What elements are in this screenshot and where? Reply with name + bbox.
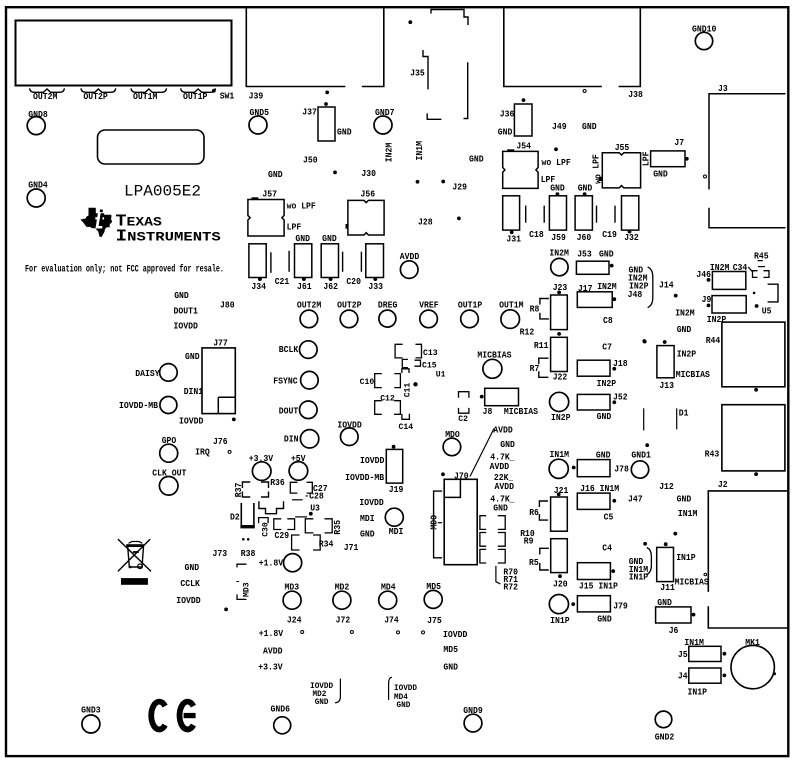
svg-text:J4: J4 [678,671,688,682]
svg-text:MDI: MDI [389,526,404,537]
dot J29 b [441,180,445,184]
jumper J62 [321,244,338,278]
testpoint GND10 [695,32,712,49]
svg-text:VREF: VREF [419,300,439,311]
svg-text:DOUT1: DOUT1 [174,306,199,317]
svg-text:J62: J62 [323,281,338,292]
svg-text:GND: GND [599,249,614,260]
dot J36 [522,98,526,102]
dot J9 [707,304,711,308]
chip J57 outline [248,200,284,237]
svg-text:AVDD: AVDD [490,461,510,472]
connector J2 outline [708,491,789,628]
svg-text:IN1M: IN1M [550,449,570,460]
capacitor C34 bracket L [753,271,758,278]
svg-text:IOVDD: IOVDD [443,629,468,640]
component pin bracket 1L [480,516,486,530]
brace MD2 stack [335,679,341,703]
svg-text:R6: R6 [529,507,539,518]
svg-text:J22: J22 [553,372,568,383]
jumper J6 [656,607,691,623]
svg-text:IN1M: IN1M [414,141,425,161]
svg-text:IN2P: IN2P [677,349,697,360]
resistor R34 bracket R [313,535,320,550]
wire J70 tick [438,522,442,524]
svg-text:GND: GND [677,324,692,335]
jumper J15 [577,563,610,580]
wire D1 mark a [676,408,678,429]
component pin bracket 2R [498,533,505,547]
jumper J59 [549,196,566,230]
dot SW1 [212,89,216,93]
svg-text:J37: J37 [302,106,317,117]
svg-text:J56: J56 [361,188,376,199]
testpoint IN2M [551,258,568,275]
resistor R43 [722,405,785,471]
svg-text:GND: GND [550,183,565,194]
dot J5 [723,652,727,656]
svg-text:OUT2M: OUT2M [33,91,58,102]
svg-text:wo: wo [592,174,603,184]
capacitor C2 bracket top [459,392,469,398]
svg-text:C13: C13 [423,348,438,358]
svg-text:IN1M: IN1M [678,508,698,519]
capacitor C20 mark b [360,252,362,272]
svg-text:IN2M: IN2M [597,281,617,292]
svg-text:FSYNC: FSYNC [273,375,298,386]
jumper J52 [577,394,610,410]
svg-text:MD5: MD5 [443,644,458,655]
dot IN1P [571,602,575,606]
capacitor C13 bracket L [395,344,403,358]
dot J16 [612,499,616,503]
jumper J36 [514,104,532,136]
dot J13 [663,340,667,344]
testpoint DOUT [300,401,318,419]
OUT1M pin brace [131,88,167,92]
svg-text:OUT1P: OUT1P [183,91,208,102]
capacitor small bracket a [402,359,408,367]
svg-text:R7: R7 [530,363,540,374]
dot J62 [329,277,333,281]
svg-text:IN2P: IN2P [707,314,727,325]
svg-text:J12: J12 [659,481,674,492]
svg-text:J31: J31 [506,234,521,245]
wire AVDD pointer [470,429,494,477]
svg-text:GND: GND [597,614,612,625]
svg-text:LPF: LPF [591,154,602,169]
svg-text:DREG: DREG [378,300,398,311]
testpoint MD4 [379,591,397,609]
jumper J16 [577,493,610,509]
open dot IRQ [228,450,231,453]
svg-text:J34: J34 [251,281,266,292]
svg-text:J76: J76 [213,436,228,447]
testpoint GND1 [631,461,648,478]
svg-text:C15: C15 [422,360,437,370]
svg-text:J49: J49 [552,121,567,132]
testpoint MD3 [283,591,301,609]
resistor R35 bracket L [305,519,313,533]
svg-text:J24: J24 [287,614,302,625]
dot D2 b [247,538,250,541]
rounded label box [98,130,205,164]
svg-text:IOVDD-MB: IOVDD-MB [119,400,158,411]
svg-text:AVDD: AVDD [263,645,283,656]
dot J33 [373,277,377,281]
connector J39 outline [246,9,383,87]
dot U1 pin1 [413,382,417,386]
testpoint IN2P [550,392,569,411]
OUT2P pin brace [81,88,116,92]
svg-text:OUT2P: OUT2P [337,300,362,311]
svg-text:R11: R11 [534,340,549,351]
capacitor C18 mark b [543,206,545,223]
svg-text:IN2P: IN2P [597,378,617,389]
svg-text:C10: C10 [360,377,375,387]
dot U3 [309,512,313,516]
dot D2 a [242,538,245,541]
capacitor C29 bracket R [287,519,294,530]
WEEE crossed-out bin icon [118,539,151,571]
testpoint IOVDD [341,428,359,446]
svg-text:C12: C12 [380,394,395,404]
svg-text:GND3: GND3 [81,705,101,716]
dot J11 [664,542,668,546]
testpoint GND9 [464,714,482,732]
capacitor C15 bracket [414,360,420,366]
svg-text:AVDD: AVDD [493,424,513,435]
testpoint GND4 [27,189,45,207]
svg-text:GND: GND [469,153,484,164]
jumper J31 [503,196,520,230]
open dot J72 [350,631,353,634]
testpoint MICBIAS [483,359,502,378]
testpoint GPO [160,444,178,462]
svg-text:GND: GND [360,529,375,540]
OUT2M pin brace [30,88,65,92]
svg-text:IOVDD: IOVDD [179,416,204,427]
testpoint CLK_OUT [159,477,178,496]
testpoint IOVDD-MB [160,397,177,414]
dot IN1M [572,466,576,470]
jumper J19 [386,449,402,483]
testpoint IN1P [549,595,568,614]
svg-text:J61: J61 [297,281,312,292]
svg-text:J33: J33 [368,281,383,292]
chip J55 outline [602,153,640,188]
testpoint OUT2P [340,310,358,328]
svg-text:C20: C20 [346,276,361,287]
capacitor C12 bracket L [375,401,382,415]
capacitor C11 bracket top [402,369,409,373]
svg-text:IN2P: IN2P [551,412,571,423]
svg-text:BCLK: BCLK [279,344,299,355]
component pin bracket 2L [480,533,486,547]
dot J12 [673,532,677,536]
jumper J5 [689,646,721,661]
dot J22 [557,332,561,336]
svg-text:LPF: LPF [287,221,302,232]
resistor R34 bracket L [292,535,300,550]
svg-text:MICBIAS: MICBIAS [675,577,709,588]
connector J35 left fragment [423,50,428,89]
svg-text:IOVDD: IOVDD [174,321,199,332]
dot U5 a [753,292,756,295]
dot J53 [610,264,614,268]
svg-text:J36: J36 [500,108,515,119]
svg-text:MDO: MDO [428,515,439,530]
svg-text:C14: C14 [399,422,414,432]
jumper J33 [366,244,384,278]
pin1 tab J56 [346,224,349,229]
capacitor C21 mark a [270,252,272,272]
resistor R6 outline [539,501,548,520]
capacitor C21 mark b [288,251,290,272]
svg-text:MICBIAS: MICBIAS [676,369,710,380]
svg-text:CCLK: CCLK [180,578,200,589]
svg-text:GND: GND [582,121,597,132]
OUT1P pin brace [181,88,216,92]
svg-text:J71: J71 [344,542,359,553]
svg-text:C19: C19 [602,229,617,240]
capacitor C34 bracket R [764,271,770,278]
svg-text:INSTRUMENTS: INSTRUMENTS [116,227,222,245]
svg-text:GND: GND [185,351,200,362]
svg-text:MDI: MDI [360,513,375,524]
svg-text:C8: C8 [603,315,613,326]
svg-text:D2: D2 [230,512,240,523]
svg-text:IN2M: IN2M [549,247,569,258]
dot J15 [611,569,615,573]
capacitor C18 mark a [525,206,527,223]
svg-text:J7: J7 [674,137,684,148]
dot GND1 [645,443,649,447]
jumper J53 [576,261,609,274]
svg-text:GND6: GND6 [271,703,291,714]
dot J6 [692,613,696,617]
dot J31 [510,230,514,234]
connector block SW1 outline [16,21,232,86]
svg-text:GND: GND [653,168,668,179]
svg-text:GND: GND [597,411,612,422]
chip J54 outline [503,151,538,188]
capacitor C29 bracket L [274,519,282,530]
dot J77 [232,418,236,422]
svg-text:DAISY: DAISY [135,368,160,379]
svg-text:GND: GND [493,503,508,514]
svg-text:+1.8V: +1.8V [259,628,284,639]
dot J52 [612,400,616,404]
svg-text:J11: J11 [660,582,675,593]
dot J20 [558,574,562,578]
dot mid right [643,340,647,344]
svg-text:GND: GND [268,169,283,180]
dot J32 [628,230,632,234]
svg-text:+3.3V: +3.3V [258,662,283,673]
open dot J75 [422,631,425,634]
jumper J4 [689,668,721,683]
connector J77 [202,348,235,414]
dot R43 [754,472,758,476]
component pin bracket 1R [498,516,505,530]
testpoint +5V [289,462,308,481]
svg-text:C4: C4 [602,543,612,554]
testpoint DIN [300,430,318,448]
svg-text:R38: R38 [241,548,256,559]
svg-text:wo LPF: wo LPF [542,157,572,168]
component pin bracket 3L [480,549,486,563]
bracket MD3 top [237,564,246,567]
svg-text:J20: J20 [553,579,568,590]
capacitor C30 bracket [259,518,269,524]
dot MK1 [773,672,776,675]
svg-text:J48: J48 [628,289,643,300]
svg-text:R9: R9 [524,536,534,547]
dot J70 [441,472,445,476]
testpoint DREG [379,310,396,327]
dot J50 [333,171,337,175]
pin1 tab J54 [507,149,514,152]
svg-text:IOVDD: IOVDD [359,497,384,508]
connector J38 outline [504,9,641,87]
resistor R36 outline [261,482,269,497]
diode D2 outline [241,503,254,525]
svg-text:J53: J53 [577,249,592,260]
wire U3 mark [295,516,307,518]
testpoint VREF [420,310,438,328]
svg-text:IOVDD: IOVDD [337,420,362,431]
svg-text:IN1P: IN1P [550,615,570,626]
open dot MICBIAS J11 [704,573,707,576]
svg-text:J57: J57 [262,188,277,199]
svg-text:J77: J77 [213,338,228,349]
svg-text:J5: J5 [678,649,688,660]
svg-text:R36: R36 [270,477,285,488]
connector J3 outline [709,94,786,228]
testpoint IN1M [549,459,568,478]
svg-text:U1: U1 [436,370,446,380]
svg-text:IN2M: IN2M [383,142,394,162]
svg-text:J54: J54 [516,140,531,151]
svg-text:J2: J2 [718,479,728,490]
dot J4 [723,674,727,678]
testpoint OUT1M [501,310,520,329]
connector J35 right fragment [464,62,468,118]
testpoint GND6 [274,717,291,734]
svg-text:R34: R34 [319,538,334,549]
svg-text:+1.8V: +1.8V [259,558,284,569]
jumper J21 [551,497,568,531]
svg-text:GND1: GND1 [631,450,651,461]
dot left of J13 [642,339,646,343]
svg-text:C7: C7 [602,342,612,353]
svg-text:MICBIAS: MICBIAS [504,406,538,417]
jumper J17 [577,292,612,308]
testpoint AVDD [400,261,418,279]
capacitor C10 bracket R [394,374,400,388]
testpoint OUT2M [300,310,318,328]
svg-text:IN1P: IN1P [676,552,696,563]
svg-text:J3: J3 [718,83,728,94]
capacitor C34 lead [748,267,753,272]
svg-text:GND: GND [397,700,411,710]
testpoint FSYNC [301,371,319,389]
component U5 outline [768,284,778,302]
connector J35 top bracket [431,10,468,26]
svg-text:R45: R45 [754,250,769,261]
svg-text:D1: D1 [679,407,689,418]
svg-text:GND: GND [174,290,189,301]
dot J61 [302,277,306,281]
connector J70 pin1 box [445,480,461,498]
wire D1 mark b [643,408,645,430]
connector J70 [444,479,477,564]
resistor R45 mark [758,266,765,268]
svg-text:C29: C29 [275,530,290,541]
brace MD4 stack [389,677,392,700]
bracket MD3 tick [236,581,239,583]
dot R44 [754,388,758,392]
svg-text:OUT1P: OUT1P [458,300,483,311]
svg-text:J72: J72 [336,614,351,625]
jumper J46 [712,272,745,290]
open dot under J38 [583,90,586,93]
svg-text:R43: R43 [705,448,720,459]
brace IN1P stack [647,548,652,575]
svg-text:C30: C30 [260,522,270,537]
svg-text:C11: C11 [402,383,412,398]
component step outline [259,501,284,514]
testpoint MD2 [333,591,351,609]
svg-text:J39: J39 [249,91,264,102]
dot J37 [324,102,328,106]
svg-text:J30: J30 [361,168,376,179]
resistor R7 outline [539,358,549,377]
svg-text:GND: GND [498,126,513,137]
dot J17 [612,297,616,301]
svg-text:-C28: -C28 [304,491,324,502]
dot J46 [707,278,711,282]
svg-text:DIN1: DIN1 [184,386,204,397]
svg-text:R5: R5 [529,557,539,568]
testpoint GND5 [249,116,267,134]
capacitor C13 bracket R [416,344,422,358]
testpoint +1.8V [284,554,302,572]
brace J48 stack [648,267,653,308]
dot J8 [480,395,484,399]
svg-text:J78: J78 [614,464,629,475]
svg-text:GND: GND [500,439,515,450]
testpoint BCLK [300,341,318,359]
resistor R8 outline [540,299,549,319]
svg-text:J29: J29 [452,181,467,192]
jumper J22 [551,337,568,371]
capacitor C19 mark a [596,206,598,223]
svg-text:OUT2P: OUT2P [83,91,108,102]
dot stack3 [643,542,647,546]
connector J35 corner L [427,113,441,119]
jumper J79 [577,596,610,612]
svg-text:J28: J28 [418,217,433,228]
svg-text:SW1: SW1 [220,90,235,101]
Texas Instruments logo: Texas state map with ti [81,208,113,237]
jumper J32 [622,196,639,230]
svg-text:J79: J79 [613,601,628,612]
dot J59 [556,192,560,196]
diode D2 cathode bar [240,525,254,528]
svg-text:R12: R12 [520,327,535,338]
